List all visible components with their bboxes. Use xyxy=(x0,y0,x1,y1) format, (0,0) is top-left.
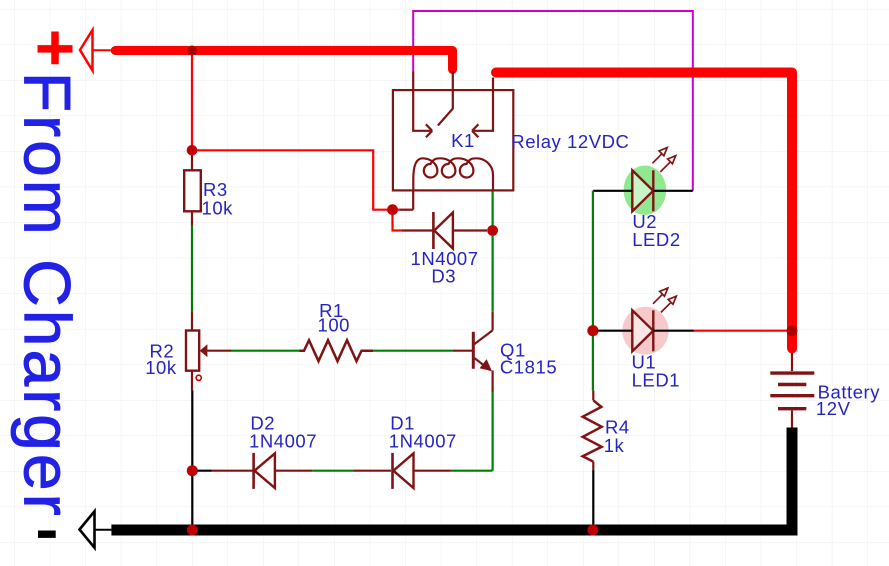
svg-text:1k: 1k xyxy=(604,435,625,456)
svg-text:1N4007: 1N4007 xyxy=(389,431,457,452)
label D1 xyxy=(390,412,415,433)
net label: From Charger xyxy=(11,72,85,519)
svg-text:100: 100 xyxy=(318,314,351,335)
label D1 value 1N4007 xyxy=(389,431,457,452)
label Battery value 12V xyxy=(816,398,851,419)
wire: R1 to Q1 base (green) xyxy=(373,350,453,352)
potentiometer R2 xyxy=(186,312,232,391)
svg-text:C1815: C1815 xyxy=(500,357,557,378)
wire: LED2 right to magenta (black) xyxy=(653,190,693,192)
svg-text:1N4007: 1N4007 xyxy=(249,431,317,452)
wire: ground bus (thick black) xyxy=(111,428,792,531)
transistor Q1 xyxy=(453,312,493,392)
junction: D3 cathode / Q1 collector xyxy=(487,225,498,236)
junction: R3 top node xyxy=(187,145,198,156)
wire: D1 cathode wire (green) xyxy=(451,470,493,472)
label Q1 xyxy=(500,339,526,360)
battery BT1 xyxy=(770,353,814,428)
svg-text:Relay 12VDC: Relay 12VDC xyxy=(511,131,629,152)
wire: relay coil left pin to D3 anode node (dark red) xyxy=(393,190,414,209)
junction: R2 wire / ground bus xyxy=(187,525,198,536)
diode D3 xyxy=(402,212,487,249)
LED U2 xyxy=(624,148,676,215)
wire: R4 to ground bus (black) xyxy=(592,470,594,530)
wire: +V bus from charger (thick red) xyxy=(115,51,452,70)
svg-text:From Charger: From Charger xyxy=(11,72,85,519)
svg-text:LED1: LED1 xyxy=(632,369,680,390)
label U1 xyxy=(632,351,657,372)
label R4 value 1k xyxy=(604,435,625,456)
junction: +V bus / R3 branch xyxy=(187,46,197,56)
wire: Q1 emitter to D1 (green) xyxy=(492,392,494,471)
wire: R2 wiper to R1 (green) xyxy=(232,350,299,352)
label D3 xyxy=(431,266,456,287)
svg-text:LED2: LED2 xyxy=(632,229,680,250)
label D2 value 1N4007 xyxy=(249,431,317,452)
label R2 xyxy=(150,341,175,362)
wire: LED2 node down to LED1 node (green) xyxy=(592,191,594,331)
wire: LED2 left (black) xyxy=(593,190,632,192)
terminal: charger negative - xyxy=(38,511,111,547)
label R1 xyxy=(319,300,344,321)
label R2 value 10k xyxy=(145,357,177,378)
wire: LED1 to battery bus (red) xyxy=(694,330,789,332)
label D3 value 1N4007 xyxy=(411,248,479,269)
terminal: charger positive + xyxy=(38,30,111,71)
svg-text:12V: 12V xyxy=(816,398,851,419)
svg-text:D3: D3 xyxy=(431,266,456,287)
wire: Q1 collector to D3 node (green) xyxy=(492,236,494,312)
resistor R3 xyxy=(184,150,201,225)
junction: relay coil left / D3 anode xyxy=(387,204,398,215)
wire: node to LED1 (black) xyxy=(593,330,632,332)
wire: D2 to R2 bottom node (black) xyxy=(192,470,211,472)
junction: LED1 wire / battery bus xyxy=(787,325,798,336)
wire: +V bus to battery positive (thick red) xyxy=(496,73,792,349)
wire: relay NO contact to LED2 (magenta net) xyxy=(413,11,693,191)
label R4 xyxy=(605,417,630,438)
label LED1 xyxy=(632,369,680,390)
wire: R2 bottom to ground bus (black) xyxy=(191,391,193,531)
resistor R4 xyxy=(583,391,602,471)
junction: LED1 / R4 / LED2 node xyxy=(587,325,598,336)
LED U1 xyxy=(622,288,676,355)
label LED2 xyxy=(632,229,680,250)
diode D1 xyxy=(353,453,451,489)
wire: relay coil right pin to D3 cathode node (green) xyxy=(492,192,494,231)
wire: D1 to D2 (green) xyxy=(312,470,353,472)
junction: R2 bottom / D2 node xyxy=(187,465,198,476)
label K1 xyxy=(451,130,475,151)
label R3 value 10k xyxy=(202,198,234,219)
wire: R3 node to relay coil (red) xyxy=(192,150,393,209)
svg-text:10k: 10k xyxy=(202,198,234,219)
resistor R1 xyxy=(299,340,373,361)
relay K1 xyxy=(393,71,513,190)
wire: LED1 to battery bus (black) xyxy=(653,330,694,332)
label R3 xyxy=(203,179,228,200)
wire: R3 to R2 (green) xyxy=(191,226,193,312)
wire: LED node to R4 (green) xyxy=(592,331,594,391)
label Q1 value C1815 xyxy=(500,357,557,378)
wire: +V to R3 (red) xyxy=(191,51,193,151)
svg-text:10k: 10k xyxy=(145,357,177,378)
label R1 value 100 xyxy=(318,314,351,335)
label Battery xyxy=(818,381,881,402)
junction: R4 wire / ground bus xyxy=(587,525,598,536)
wire: relay coil node to D3 anode (red) xyxy=(393,210,403,231)
svg-text:K1: K1 xyxy=(451,130,475,151)
label D2 xyxy=(250,412,275,433)
label U2 xyxy=(632,211,657,232)
diode D2 xyxy=(212,453,313,489)
label Relay 12VDC xyxy=(511,131,629,152)
